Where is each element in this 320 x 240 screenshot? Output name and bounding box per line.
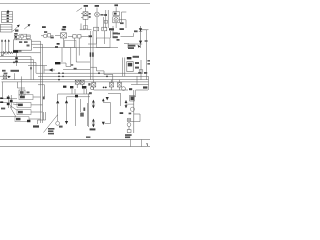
vertical drop from rail b xyxy=(70,48,72,67)
text block bottom center-left xyxy=(48,128,54,134)
vertical drop from rail c xyxy=(75,48,77,63)
mid bus y73 xyxy=(36,72,141,74)
arrow node upper mid-left xyxy=(24,24,30,29)
aux contact under K2 xyxy=(83,26,88,29)
light box mid xyxy=(65,40,77,47)
label left xyxy=(1,108,5,110)
horizontal bus B xyxy=(0,59,34,61)
right block: vertical pair xyxy=(122,58,124,77)
staircase wire xyxy=(91,67,113,82)
junction dots on y76 xyxy=(62,76,64,78)
stepped wire center b xyxy=(76,61,90,63)
small mark right xyxy=(145,40,148,42)
Y1 wire to bus xyxy=(33,96,41,98)
node mark on y90 xyxy=(129,88,132,90)
label mid low xyxy=(133,56,139,58)
title block divider 1 xyxy=(130,139,132,146)
center-bottom verticals xyxy=(58,99,88,126)
box B2 xyxy=(102,27,107,31)
label above K1 xyxy=(14,33,17,35)
dark mark x27 y120 xyxy=(27,120,30,122)
ground triangle G2 xyxy=(65,100,68,103)
bottom circle component C1 xyxy=(56,122,60,126)
wire y36.5 stub xyxy=(121,33,134,36)
vertical riser with contacts xyxy=(15,53,18,66)
right loop wire xyxy=(103,102,110,123)
vertical right of L2 xyxy=(102,17,104,30)
wire W2 vertical xyxy=(4,40,6,53)
valve circle on rail xyxy=(130,107,134,111)
long verticals from top cluster xyxy=(91,26,114,80)
bottom right cluster: valve symbols xyxy=(127,114,140,133)
right small labels xyxy=(135,62,139,69)
vertical wire V36 xyxy=(35,62,37,73)
crystal box Y2 xyxy=(17,102,31,107)
label above L1 xyxy=(84,5,88,7)
wire y88 xyxy=(18,82,26,88)
marks right of K2 xyxy=(89,13,91,18)
loop left vertical xyxy=(88,93,90,127)
X1 dark blobs xyxy=(0,97,12,106)
label on y69.5 xyxy=(74,68,77,70)
motor symbol M2 left xyxy=(0,75,11,79)
diode column x93 lower labels xyxy=(90,128,96,130)
left drop wire xyxy=(2,82,4,97)
wire y47.5 long xyxy=(93,47,118,49)
left L wire xyxy=(21,76,23,97)
measure arrow MA1 xyxy=(92,100,96,109)
main bus N (lower) xyxy=(2,81,149,83)
bracket node top right xyxy=(120,12,126,24)
wire right y90 corner xyxy=(136,89,148,91)
tick on VL2 xyxy=(43,97,45,100)
label bottom center xyxy=(59,126,63,128)
crystal box Y3 xyxy=(17,110,31,115)
small label right of L2 xyxy=(100,14,103,16)
right edge drop xyxy=(148,76,150,90)
top labels row y28-31 xyxy=(42,26,124,30)
mark left of cluster xyxy=(120,112,124,114)
label above M2 xyxy=(4,73,8,75)
long vertical pair VL2 xyxy=(42,44,44,123)
long vertical pair VL1 xyxy=(40,41,42,123)
fan-out diagonal 1 xyxy=(10,106,18,111)
top mid boxes row: box B1 xyxy=(94,27,99,31)
ground triangle G1 xyxy=(56,100,59,103)
small label above title strip xyxy=(86,136,90,138)
small relay coil M1 xyxy=(19,34,30,40)
dark blob labels under buses xyxy=(63,86,86,89)
crystal box Y1 xyxy=(19,95,33,100)
junction dots on y73 xyxy=(62,72,64,74)
contact pair CB1 under bus (x75-84) xyxy=(75,80,84,88)
transistor Q3 under bus x117-122 xyxy=(117,80,121,90)
horizontal bus C xyxy=(0,61,36,63)
pump symbol P1 xyxy=(55,33,67,48)
arrow on V31 xyxy=(30,68,32,71)
net labels under y53 xyxy=(1,50,22,55)
title block divider 2 xyxy=(141,139,143,146)
marks left pair xyxy=(55,43,60,48)
stepped wire center xyxy=(60,63,71,67)
fan-out diagonal 3 xyxy=(13,103,18,106)
mark right of column xyxy=(83,108,85,111)
fuse F1 on riser xyxy=(90,52,92,56)
labels right x112-118 xyxy=(113,32,118,38)
label mid right a xyxy=(117,33,120,35)
bottom-left horizontal xyxy=(0,116,15,118)
Y3 wire to bus xyxy=(31,111,43,113)
top row stubs xyxy=(80,24,92,30)
label right under xyxy=(143,86,147,88)
title block top line xyxy=(0,138,150,140)
left label row1 xyxy=(2,70,6,72)
mid components: diode D2 pointing left xyxy=(28,66,55,74)
lamp box L3 xyxy=(113,7,120,28)
small circle meter xyxy=(122,87,126,91)
junction dots column x59 xyxy=(58,72,60,80)
label bottom left xyxy=(33,125,39,127)
tick marks at net left xyxy=(1,51,3,54)
drop x137 xyxy=(136,76,138,84)
vertical wire V31 xyxy=(30,57,32,80)
label above L3 xyxy=(114,4,118,6)
fuse F2 on riser xyxy=(92,52,94,56)
pointer diagonal xyxy=(44,115,58,133)
sensor S1 circle xyxy=(41,34,54,38)
box under cluster xyxy=(96,38,110,48)
label above L2 xyxy=(95,5,99,7)
down arrow at loop end xyxy=(102,122,105,125)
small dark box node xyxy=(75,95,78,98)
arrowhead at wire end xyxy=(138,45,141,48)
wire y84.5 right xyxy=(131,84,149,86)
IC cluster X1 left-bottom xyxy=(0,95,17,108)
loop corner arrow xyxy=(106,97,109,100)
wire from U1 out 1 xyxy=(32,40,41,42)
junction dot staircase b xyxy=(106,76,108,78)
wire x135.6 drop xyxy=(130,90,136,97)
component row on net y53: diode D1 xyxy=(0,51,41,54)
dark mark above right block xyxy=(127,57,132,59)
stub y84.8 xyxy=(38,84,45,86)
connector J2 xyxy=(0,25,12,33)
label above P1 xyxy=(62,29,66,31)
measure arrow MA2 xyxy=(92,119,96,128)
top mid cluster: contactor K2 xyxy=(81,8,88,31)
diode D4 xyxy=(139,41,142,44)
Y4 wire xyxy=(29,118,41,120)
right top: diode D3 xyxy=(139,26,149,48)
aux box row: box BA1 xyxy=(68,35,88,56)
left L wire2 xyxy=(14,73,16,79)
connector J1 pin marks xyxy=(7,10,10,22)
label above S1 xyxy=(44,31,47,33)
top mid cluster: lamp L2 xyxy=(95,8,100,31)
label left of D3 xyxy=(134,30,138,32)
small label xyxy=(71,64,74,66)
resistor R1 zigzag on net xyxy=(9,52,13,54)
label left of Q1 xyxy=(88,83,90,85)
wire from U1 out 2 xyxy=(32,43,43,45)
U1 internal marks xyxy=(19,41,30,46)
label near arrow xyxy=(15,30,18,32)
vertical drop from rail xyxy=(61,48,63,63)
wire y44 right xyxy=(128,44,139,48)
right edge vertical rail xyxy=(141,30,147,80)
component K1 small box with mark xyxy=(14,35,19,40)
vertical pair small x43-45 xyxy=(38,112,46,124)
Y2 wire to bus xyxy=(31,104,43,106)
main bus P (upper) xyxy=(2,79,149,81)
left label row2 xyxy=(11,70,20,72)
long rail y47.5 xyxy=(33,47,93,49)
wire y90 joining xyxy=(94,89,128,91)
node label on loop xyxy=(89,92,92,94)
bold label left of bus xyxy=(13,50,18,52)
crystal box Y4 xyxy=(15,117,29,122)
label in box xyxy=(80,113,84,117)
bottom arrow node xyxy=(65,121,68,124)
labels under y44 xyxy=(128,45,135,49)
bidir arrow symbol xyxy=(125,100,134,108)
wire y44 xyxy=(88,43,96,45)
right edge label column xyxy=(147,60,150,65)
title block bottom line xyxy=(0,146,150,148)
wire y93.5 xyxy=(108,93,121,106)
horizontal bus A xyxy=(0,56,31,58)
diag wire to L1 xyxy=(77,8,83,12)
wire y69.5 xyxy=(63,69,90,71)
vertical wire V33 xyxy=(33,60,35,80)
label right of S1 xyxy=(50,37,53,39)
node arrow x103 xyxy=(102,98,105,102)
junction dots pair xyxy=(103,87,107,89)
block box U1 xyxy=(14,40,32,50)
mid bus y76 xyxy=(38,75,149,77)
labels under right cluster xyxy=(125,134,132,138)
wire W3 vertical xyxy=(8,40,10,53)
pin arrowheads on W1 W2 W3 xyxy=(1,39,10,41)
arrow to node up-right of J2 xyxy=(13,25,20,32)
node mark above right cluster xyxy=(129,113,132,115)
vertical right x141 xyxy=(140,60,142,80)
wires y94/y97 center xyxy=(58,89,90,100)
dark mark right of BA row xyxy=(88,35,92,37)
vertical x133.5 long xyxy=(133,90,135,133)
labels above right bus xyxy=(138,72,147,74)
sheet top border xyxy=(0,3,150,5)
tiny mark in title block right cell xyxy=(146,143,148,146)
transistor Q2 under bus x109-114 xyxy=(109,80,113,90)
relay box RB1 xyxy=(127,62,133,72)
left stub box xyxy=(19,90,25,95)
bold label mid xyxy=(55,62,60,64)
label mid right b xyxy=(117,39,120,41)
junction dot staircase a xyxy=(98,72,100,74)
right cluster: box with fill xyxy=(130,95,135,101)
label right of stub box xyxy=(27,92,30,94)
corner from bus xyxy=(44,85,46,97)
transistor Q1 under bus x92-96 xyxy=(90,80,96,90)
junction dot on bus C xyxy=(13,62,15,64)
wire W1 vertical xyxy=(1,40,3,53)
vertical pair x105/108 xyxy=(104,10,108,28)
connector J1 xyxy=(2,12,13,23)
fan-out diagonal 2 xyxy=(10,107,16,118)
wire right of L3 xyxy=(119,20,126,28)
component on x141 xyxy=(139,70,143,73)
